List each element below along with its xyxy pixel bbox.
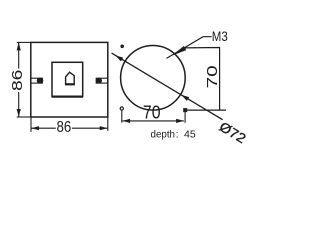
right tab filled tip [96,78,102,84]
arrow right [100,126,108,130]
right lower extension line [107,117,109,131]
svg-text:45: 45 [184,129,196,141]
diameter arrow lower-right [181,95,189,101]
svg-text:86: 86 [57,119,72,136]
M3 leader arrow [172,46,187,56]
keyhole (house shape) [66,72,75,84]
diameter line Ø72 [112,53,223,120]
arrow down [17,109,21,117]
knob circle [121,46,186,111]
right tab outline [96,78,108,83]
vertical dim line 86 upper segment [18,43,20,69]
diameter arrow upper-left [115,55,123,61]
arrow right 70 [176,119,184,123]
M3 leader line [167,37,212,59]
top extension line [17,41,31,43]
bottom extension line right [185,109,226,111]
horizontal dim line 86 right segment [72,127,108,129]
vertical dim 70 bent extension (top + line) [184,48,220,111]
arrow up [17,43,21,51]
vertical dim line 86 lower segment [18,92,20,117]
bottom extension line [17,116,31,118]
svg-text:86: 86 [10,70,26,92]
svg-text:70: 70 [143,102,161,123]
svg-text:Ø72: Ø72 [217,119,249,146]
svg-text:70: 70 [204,65,221,88]
horizontal dim line 86 left segment [31,127,55,129]
left tab outline [31,78,43,83]
left tab filled tip [37,78,44,84]
svg-text::: : [176,129,179,141]
svg-text:M3: M3 [212,28,228,44]
inner square thick bottom edge [52,95,83,97]
inner square hole [52,62,83,96]
corner square dot [183,108,187,112]
small ring marker [120,107,123,110]
extension below ring [121,110,123,122]
arrow left [31,126,39,130]
horizontal dim line 70 [122,120,184,122]
left lower extension line [30,117,32,132]
keyhole thick bottom [65,83,75,85]
arrow left 70 [122,119,130,123]
M3 hole dot [120,45,124,49]
svg-text:depth: depth [151,129,176,141]
extension below square dot [184,110,186,123]
panel outline (86x86 square) [31,42,108,117]
